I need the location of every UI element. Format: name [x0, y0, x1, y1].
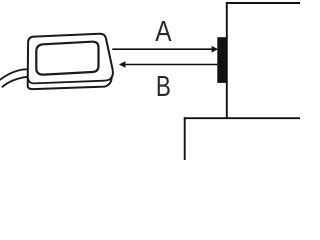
svg-text:A: A [155, 16, 172, 48]
step vertical edge [184, 117, 186, 160]
cable upper line [0, 69, 28, 80]
handheld transmitter device body [28, 34, 113, 89]
wall top horizontal edge [226, 2, 300, 4]
device display window [36, 42, 98, 75]
device base seam line [28, 76, 112, 83]
cable lower line [2, 77, 28, 88]
arrow B (sensor to device) [120, 62, 218, 68]
step horizontal edge [184, 117, 300, 119]
svg-text:B: B [156, 71, 171, 103]
arrow A (device to sensor) [112, 46, 217, 52]
wall sensor (black block) [217, 37, 226, 83]
wall vertical edge [226, 2, 228, 118]
